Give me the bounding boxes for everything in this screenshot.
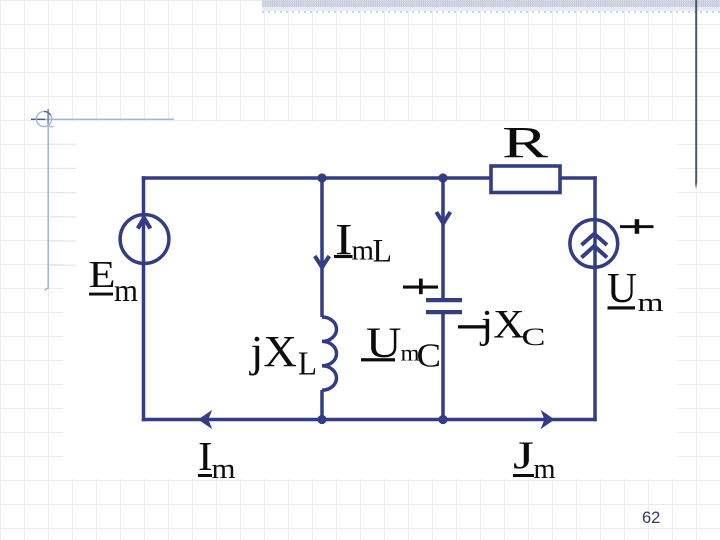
label Jm bottom xyxy=(513,434,556,485)
wire: capacitor branch upper xyxy=(441,178,445,298)
wire top rail xyxy=(142,176,597,180)
top hatched band dark row xyxy=(262,0,720,7)
svg-text:m: m xyxy=(534,454,556,485)
svg-text:m: m xyxy=(638,288,664,317)
wire bottom rail xyxy=(142,418,597,422)
svg-text:I: I xyxy=(198,433,213,479)
wire right rail xyxy=(593,176,597,421)
source Em arrow xyxy=(138,218,151,229)
white content panel xyxy=(63,122,677,479)
label UmC xyxy=(361,320,441,375)
arrow Im left xyxy=(200,412,211,427)
top hatched band light row xyxy=(262,7,720,11)
label Em xyxy=(89,254,139,308)
pencil line right xyxy=(695,0,697,189)
svg-text:62: 62 xyxy=(642,509,660,527)
decor compass glyph xyxy=(36,111,54,127)
source Um circle xyxy=(570,220,618,268)
source Um double chevron xyxy=(582,234,608,258)
plus sign near Um xyxy=(620,219,654,234)
svg-text:jX: jX xyxy=(248,327,297,376)
svg-text:J: J xyxy=(513,434,534,477)
decor horizontal line top-left xyxy=(31,119,174,120)
wire: below coil xyxy=(320,390,324,420)
svg-text:C: C xyxy=(522,324,546,351)
arrow cap branch down xyxy=(436,212,450,223)
node top-right junction xyxy=(438,173,447,182)
decor vertical line left xyxy=(45,109,49,290)
svg-text:L: L xyxy=(298,346,317,383)
wire: inductor branch xyxy=(320,178,324,317)
label Im bottom xyxy=(198,433,236,485)
wire: capacitor branch lower xyxy=(441,313,445,420)
source Em circle xyxy=(120,215,169,264)
wire left rail xyxy=(142,176,146,421)
label -jXC xyxy=(458,302,546,352)
svg-text:R: R xyxy=(502,118,549,167)
plus sign near capacitor xyxy=(403,279,438,295)
node bottom-right junction xyxy=(438,415,447,424)
label Um xyxy=(607,266,664,317)
decor ruler ticks xyxy=(49,144,76,266)
svg-text:m: m xyxy=(352,235,375,267)
node top-left junction xyxy=(317,173,326,182)
svg-text:E: E xyxy=(89,254,116,296)
svg-text:L: L xyxy=(373,234,393,270)
node bottom-left junction xyxy=(317,415,326,424)
svg-text:m: m xyxy=(114,272,138,308)
label ImL xyxy=(334,215,392,270)
resistor R box xyxy=(491,166,560,193)
svg-text:U: U xyxy=(607,266,637,312)
arrow ImL down xyxy=(315,256,330,267)
svg-text:m: m xyxy=(212,454,236,485)
arrow Jm right xyxy=(542,412,553,427)
dotted row under band xyxy=(262,11,720,13)
capacitor -jXC plates xyxy=(426,300,462,312)
label jXL xyxy=(248,327,317,383)
svg-text:C: C xyxy=(417,338,442,375)
inductor jXL coil xyxy=(322,317,337,390)
svg-text:jX: jX xyxy=(479,302,525,347)
